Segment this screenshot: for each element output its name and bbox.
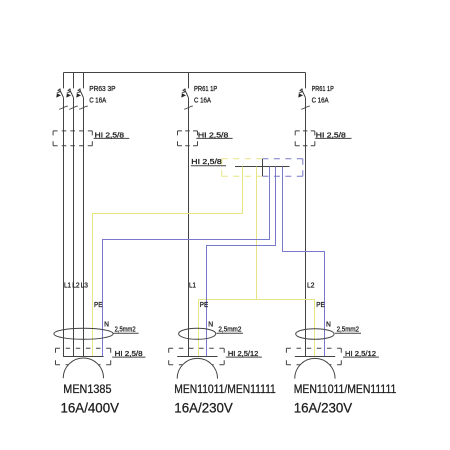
svg-text:MEN1385: MEN1385 (63, 383, 111, 396)
svg-text:C 16A: C 16A (194, 97, 211, 104)
svg-text:16A/400V: 16A/400V (61, 401, 120, 416)
svg-text:PR61 1P: PR61 1P (312, 86, 334, 93)
svg-text:16A/230V: 16A/230V (174, 401, 233, 416)
svg-text:HI 2,5/12: HI 2,5/12 (228, 351, 258, 358)
svg-text:HI 2,5/8: HI 2,5/8 (191, 159, 222, 166)
svg-text:2,5mm2: 2,5mm2 (337, 327, 359, 334)
svg-text:HI 2,5/8: HI 2,5/8 (115, 351, 143, 358)
svg-text:MEN11011/MEN11111: MEN11011/MEN11111 (174, 383, 275, 396)
svg-text:N: N (326, 322, 331, 329)
svg-text:L3: L3 (81, 283, 88, 290)
svg-text:PE: PE (94, 302, 103, 309)
svg-text:PR61 1P: PR61 1P (194, 86, 218, 93)
svg-text:C 16A: C 16A (312, 97, 329, 104)
svg-text:2,5mm2: 2,5mm2 (115, 327, 136, 334)
svg-text:C 16A: C 16A (89, 97, 106, 104)
svg-text:L2: L2 (307, 283, 314, 290)
svg-text:PE: PE (316, 302, 325, 309)
svg-text:2,5mm2: 2,5mm2 (218, 327, 241, 334)
svg-text:MEN11011/MEN11111: MEN11011/MEN11111 (294, 383, 397, 396)
svg-text:HI 2,5/8: HI 2,5/8 (198, 132, 229, 139)
svg-text:L1: L1 (189, 283, 196, 290)
svg-text:N: N (208, 322, 213, 329)
svg-text:HI 2,5/8: HI 2,5/8 (316, 132, 346, 139)
svg-text:L2: L2 (72, 283, 79, 290)
svg-text:HI 2,5/8: HI 2,5/8 (95, 132, 124, 139)
svg-text:HI 2,5/12: HI 2,5/12 (345, 351, 376, 358)
svg-text:L1: L1 (64, 283, 71, 290)
svg-text:PE: PE (200, 302, 209, 309)
svg-text:N: N (104, 322, 109, 329)
svg-text:PR63 3P: PR63 3P (89, 86, 116, 93)
svg-text:16A/230V: 16A/230V (294, 401, 353, 416)
